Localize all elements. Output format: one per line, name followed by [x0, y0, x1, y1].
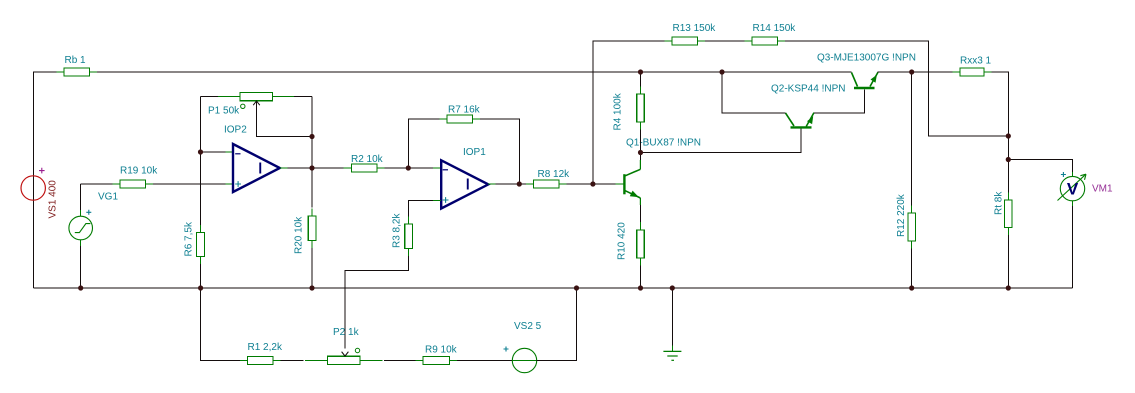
voltage source VS1 400 — [21, 168, 58, 219]
voltmeter VM1 — [1008, 160, 1113, 289]
node R4 top — [638, 69, 643, 74]
svg-text:R7 16k: R7 16k — [448, 105, 481, 116]
node Q1 base — [590, 181, 595, 186]
resistor R12 220k — [896, 72, 916, 288]
svg-text:R4 100k: R4 100k — [613, 92, 624, 130]
svg-text:R9 10k: R9 10k — [425, 345, 458, 356]
resistor R6 7,5k — [184, 221, 205, 288]
junction ground symbol rail — [670, 285, 675, 290]
junction VG1-ground rail — [78, 285, 83, 290]
resistor R19 10k — [81, 166, 234, 189]
junction VS2-ground rail — [574, 285, 579, 290]
svg-text:IOP1: IOP1 — [463, 147, 486, 158]
resistor R13 150k — [665, 23, 717, 45]
svg-text:R19 10k: R19 10k — [120, 166, 158, 177]
svg-text:R13 150k: R13 150k — [673, 23, 717, 34]
svg-text:R12 220k: R12 220k — [896, 193, 907, 237]
svg-text:R20 10k: R20 10k — [294, 216, 305, 254]
wire P1 right to feedback node — [311, 97, 313, 137]
wire Q2 collector branch — [722, 72, 786, 113]
junction R10-ground rail — [638, 285, 643, 290]
wire rail2 main run — [97, 71, 852, 73]
svg-text:IOP2: IOP2 — [224, 125, 247, 136]
wire feedback node down through output node — [311, 137, 313, 169]
resistor R14 150k — [745, 23, 797, 45]
svg-text:Rxx3 1: Rxx3 1 — [960, 56, 992, 67]
potentiometer P1 50k — [201, 92, 313, 136]
svg-text:VS1 400: VS1 400 — [47, 180, 58, 219]
svg-text:VG1: VG1 — [98, 192, 118, 203]
svg-text:Rt 8k: Rt 8k — [994, 191, 1005, 215]
svg-text:Rb 1: Rb 1 — [65, 55, 87, 66]
junction Rt-ground rail — [1006, 285, 1011, 290]
svg-text:R3 8,2k: R3 8,2k — [392, 213, 403, 248]
resistor R9 10k — [416, 345, 513, 365]
svg-text:Q1-BUX87 !NPN: Q1-BUX87 !NPN — [626, 138, 701, 149]
node Q2 collector branch — [719, 69, 724, 74]
node P1 wiper feedback — [309, 134, 314, 139]
wire Q1 collector node to Q2 base — [641, 129, 802, 153]
svg-text:R1 2,2k: R1 2,2k — [248, 342, 283, 353]
wire bottom branch left drop — [201, 288, 240, 361]
wire output node down to R20 — [311, 168, 313, 208]
resistor R7 16k feedback — [408, 105, 519, 185]
svg-text:R6 7,5k: R6 7,5k — [184, 221, 195, 256]
node Rxx3 right upper — [1006, 133, 1011, 138]
svg-text:R10 420: R10 420 — [617, 222, 628, 260]
resistor R20 10k — [294, 209, 316, 289]
node Q3 emitter / R12 — [909, 69, 914, 74]
potentiometer P2 1k — [305, 327, 416, 365]
resistor R2 10k — [312, 154, 441, 172]
transistor Q2-KSP44 — [771, 84, 845, 128]
svg-text:VM1: VM1 — [1092, 184, 1113, 195]
generator VG1 — [69, 184, 119, 288]
node IOP2 output — [309, 165, 314, 170]
transistor Q3-MJE13007G — [817, 53, 916, 89]
op-amp IOP2 — [201, 125, 313, 193]
svg-text:R8 12k: R8 12k — [538, 169, 571, 180]
node Rt top / VM1 — [1006, 157, 1011, 162]
wire node down — [1007, 136, 1009, 160]
node IOP1 inverting input — [406, 165, 411, 170]
transistor Q1-BUX87 — [624, 138, 701, 223]
svg-text:R14 150k: R14 150k — [753, 23, 797, 34]
junction R6-ground rail — [198, 285, 203, 290]
resistor Rxx3 1 — [953, 56, 1009, 137]
voltage source VS2 5 — [504, 288, 577, 373]
wire rail2 y=72 Rb1 to Q3 collector — [34, 72, 57, 288]
junction R12-ground rail — [909, 285, 914, 290]
ground — [663, 288, 681, 360]
svg-text:P2 1k: P2 1k — [333, 327, 360, 338]
resistor Rt 8k — [994, 160, 1013, 289]
wire top rail1 y=41 from x=593 to x=928.5 with bends — [593, 41, 1008, 184]
node IOP2 inverting input — [198, 149, 203, 154]
svg-text:P1 50k: P1 50k — [208, 106, 240, 117]
junction R20-ground rail — [309, 285, 314, 290]
resistor R3 8,2k — [345, 201, 441, 349]
resistor R4 100k — [613, 72, 645, 153]
op-amp IOP1 — [441, 147, 519, 209]
node Q1 collector — [638, 150, 643, 155]
resistor R8 12k — [519, 169, 623, 188]
resistor R10 420 — [617, 222, 645, 288]
wire bottom rail y=288 — [34, 287, 1073, 289]
svg-text:V: V — [1067, 180, 1079, 199]
wire Q3 emitter to node — [878, 71, 953, 73]
svg-text:Q2-KSP44 !NPN: Q2-KSP44 !NPN — [771, 84, 845, 95]
wire Q2 emitter to Q3 base — [814, 89, 865, 113]
svg-text:R2 10k: R2 10k — [351, 154, 384, 165]
svg-text:VS2 5: VS2 5 — [514, 321, 542, 332]
node IOP1 output — [517, 181, 522, 186]
wire minus node down to R6 — [200, 152, 202, 225]
resistor Rb 1 — [57, 55, 98, 76]
svg-text:Q3-MJE13007G !NPN: Q3-MJE13007G !NPN — [817, 53, 916, 64]
resistor R1 2,2k — [240, 342, 304, 365]
wire minus node up to P1 left — [200, 97, 202, 153]
